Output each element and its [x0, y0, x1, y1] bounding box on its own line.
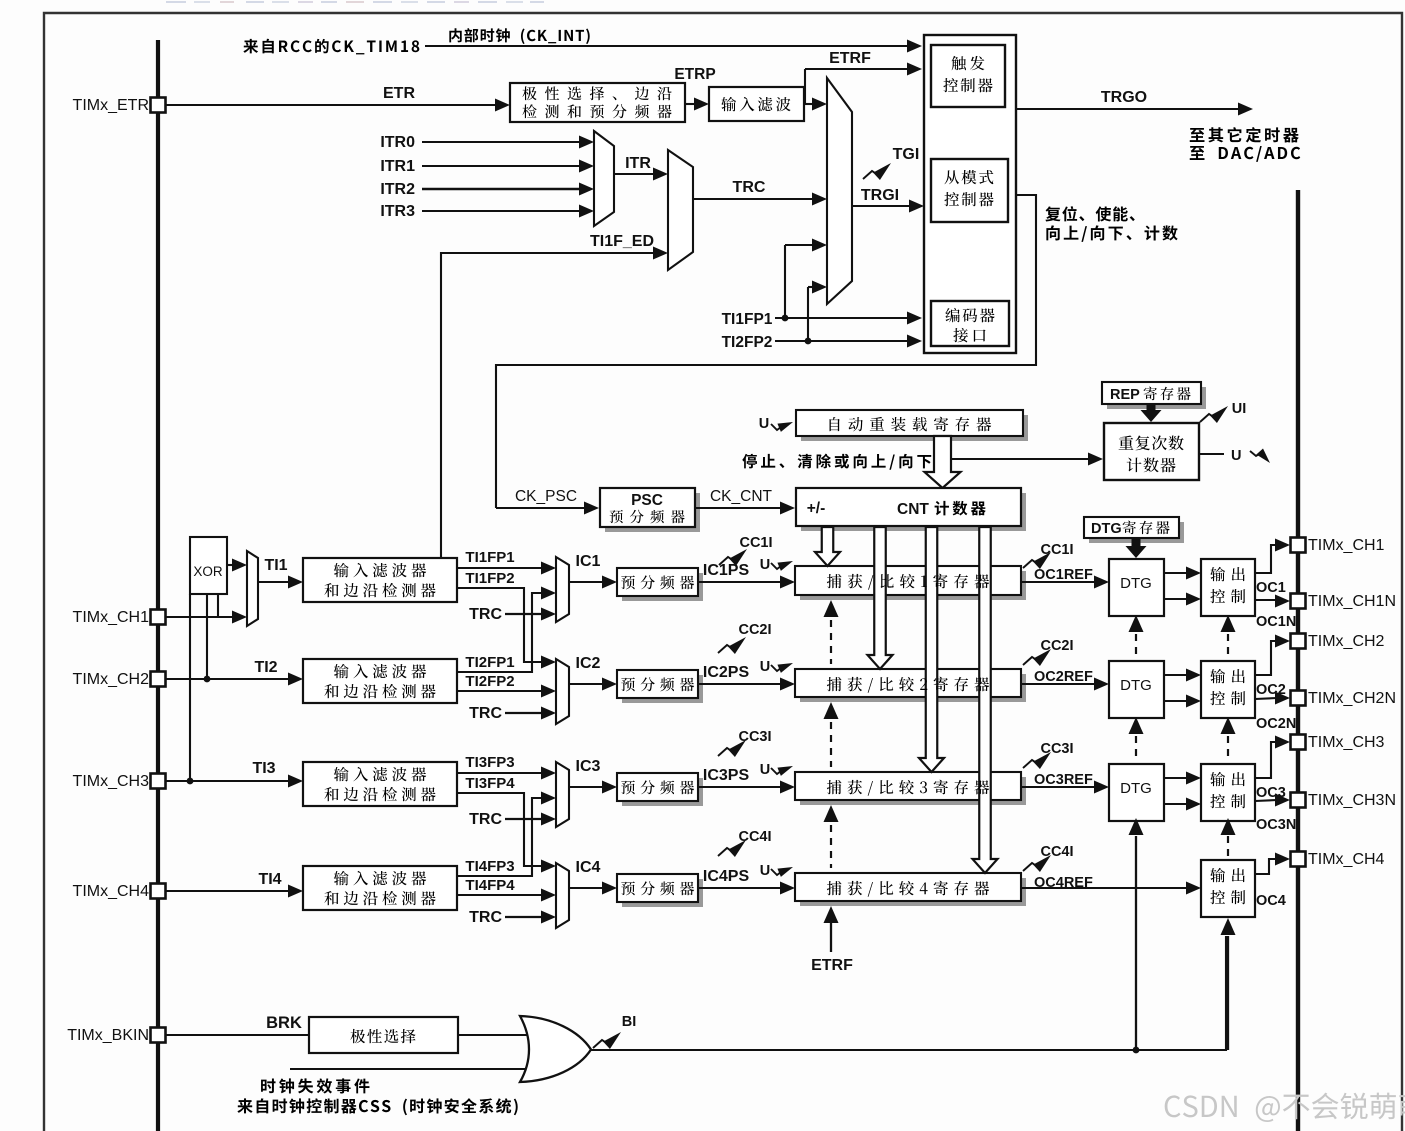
wire TI2FP1	[457, 593, 545, 672]
svg-text:BRK: BRK	[266, 1014, 302, 1032]
interrupt BI	[593, 1040, 608, 1048]
box repetition counter	[1104, 423, 1199, 480]
dashes output-control column	[1221, 615, 1236, 632]
box trigger controller	[931, 45, 1005, 107]
svg-text:ITR2: ITR2	[380, 181, 415, 198]
pad TIMx_CH1N	[1291, 594, 1306, 609]
pad TIMx_CH3N	[1291, 793, 1306, 808]
pad TIMx_CH1	[1291, 538, 1306, 553]
svg-text:ETRF: ETRF	[829, 50, 871, 67]
wire TRC row 1	[505, 613, 543, 615]
hollow arrow CNT to capture/compare 3	[919, 527, 944, 772]
svg-text:TIMx_ETR: TIMx_ETR	[73, 97, 149, 114]
svg-text:OC4: OC4	[1256, 893, 1286, 909]
mux TRC select	[668, 150, 693, 270]
wire ETR	[165, 104, 495, 106]
svg-text:CC2I: CC2I	[738, 622, 771, 638]
svg-text:TRC: TRC	[469, 705, 502, 722]
wire TI2FP2	[457, 690, 543, 692]
label reset enable updown count	[1045, 206, 1060, 221]
pad TIMx_CH3	[1291, 735, 1306, 750]
wire OC4	[1255, 859, 1277, 874]
box prescaler IC3	[622, 778, 703, 806]
right I/O bus	[1296, 190, 1300, 1131]
mux IC3 select	[556, 762, 569, 827]
box prescaler IC2	[622, 675, 703, 703]
svg-text:TIMx_BKIN: TIMx_BKIN	[67, 1027, 149, 1044]
wire TI1FP1	[457, 567, 543, 569]
dashes DTG column	[1129, 615, 1144, 632]
wire OC2REF	[1021, 683, 1095, 685]
wires DTG2 to output control	[1164, 674, 1187, 676]
arrow DTG register to DTG1	[1126, 538, 1147, 558]
box capture/compare register 1	[800, 571, 1026, 600]
box polarity selection	[309, 1017, 458, 1053]
svg-text:TIMx_CH4: TIMx_CH4	[73, 883, 150, 900]
hollow arrow ARR to CNT	[925, 436, 961, 488]
label stop clear or up/down	[742, 454, 757, 469]
cropped page title fragments	[166, 1, 186, 3]
svg-text:CC3I: CC3I	[1040, 741, 1073, 757]
svg-text:TI1FP1: TI1FP1	[722, 311, 773, 328]
svg-text:TI2FP2: TI2FP2	[722, 334, 773, 351]
svg-text:CC1I: CC1I	[739, 535, 772, 551]
hollow arrow CNT to capture/compare 2	[868, 527, 893, 669]
svg-text:CC4I: CC4I	[1040, 844, 1073, 860]
svg-text:TRGI: TRGI	[861, 187, 899, 204]
event U output of repetition counter	[1199, 453, 1224, 455]
box input filter & edge detector TI1	[303, 558, 457, 602]
wire TI2FP2 to encoder	[775, 340, 908, 342]
box prescaler IC1	[622, 573, 703, 601]
wire OC2N	[1255, 698, 1277, 699]
svg-text:TI4: TI4	[258, 871, 281, 888]
wire IC2	[569, 683, 604, 685]
svg-text:CNT: CNT	[897, 501, 929, 518]
wire TRC row 3	[505, 818, 543, 820]
interrupt UI	[1200, 414, 1215, 422]
wire IC1	[569, 581, 604, 583]
svg-text:IC4: IC4	[576, 859, 601, 876]
svg-text:CC3I: CC3I	[738, 729, 771, 745]
svg-text:U: U	[760, 659, 770, 675]
arrow update into capture/compare 3 bottom	[824, 805, 839, 822]
svg-text:TRC: TRC	[469, 811, 502, 828]
svg-text:TIMx_CH4: TIMx_CH4	[1308, 851, 1385, 868]
svg-text:TRC: TRC	[469, 909, 502, 926]
svg-text:OC3REF: OC3REF	[1034, 772, 1093, 788]
box REP register	[1107, 387, 1206, 409]
svg-text:TRC: TRC	[733, 179, 766, 196]
wire IC3	[569, 786, 604, 788]
wire OC4REF	[1021, 887, 1187, 889]
pad TIMx_CH2	[1291, 634, 1306, 649]
box input filter & edge detector TI3	[303, 762, 457, 806]
wires DTG3 to output control	[1164, 777, 1187, 779]
svg-text:OC1REF: OC1REF	[1034, 567, 1093, 583]
wire TI4FP4	[457, 894, 543, 896]
box capture/compare register 2	[800, 674, 1026, 702]
svg-text:TIMx_CH1: TIMx_CH1	[1308, 537, 1385, 554]
pad TIMx_CH2N	[1291, 691, 1306, 706]
box input filter	[709, 87, 804, 121]
wire TI1F_ED	[441, 253, 655, 558]
interrupt CC1I right	[1023, 560, 1038, 568]
svg-text:TI3: TI3	[252, 760, 275, 777]
label to DAC/ADC	[1190, 146, 1205, 160]
hollow arrow CNT to capture/compare 1	[815, 527, 840, 566]
arrow ETRF into capture/compare 4 bottom	[824, 906, 839, 923]
arrow update into capture/compare 1 bottom	[824, 600, 839, 617]
wire OC1N	[1255, 599, 1277, 601]
interrupt TGI	[863, 171, 878, 179]
CSDN watermark	[1165, 1095, 1181, 1117]
wire TI3FP3	[457, 772, 543, 774]
wire CK_CNT	[695, 507, 781, 509]
wire TI2	[165, 678, 289, 680]
hollow arrow CNT to capture/compare 4	[973, 527, 998, 873]
wire CK_PSC	[496, 507, 585, 509]
svg-text:IC1: IC1	[576, 553, 601, 570]
box DTG 3	[1109, 764, 1164, 821]
svg-text:UI: UI	[1232, 401, 1247, 417]
svg-text:ITR: ITR	[625, 155, 651, 172]
svg-text:TRGO: TRGO	[1101, 89, 1147, 106]
wire BRK input	[165, 1034, 309, 1036]
squiggle CC2I left	[718, 645, 733, 653]
wire TI1FP1 to TRGI mux	[784, 245, 786, 318]
svg-text:DTG: DTG	[1091, 521, 1122, 537]
svg-text:IC2: IC2	[576, 655, 601, 672]
svg-text:TI4FP4: TI4FP4	[465, 877, 515, 894]
box input filter & edge detector TI2	[303, 659, 457, 703]
mux TI1 select	[247, 551, 258, 626]
svg-text:U: U	[760, 557, 770, 573]
pad TIMx_CH1	[151, 610, 166, 625]
wire ETRF to trigger controller	[804, 103, 805, 105]
svg-text:PSC: PSC	[631, 492, 663, 509]
wire OC3	[1255, 742, 1277, 778]
svg-text:TIMx_CH2: TIMx_CH2	[1308, 633, 1385, 650]
svg-text:U: U	[759, 416, 769, 432]
box PSC prescaler	[605, 493, 700, 532]
wire TI3FP4	[457, 793, 545, 866]
mux IC4 select	[556, 863, 569, 928]
wire TRGI	[852, 205, 910, 207]
wire TI1FP2	[457, 588, 545, 662]
svg-text:CC1I: CC1I	[1040, 542, 1073, 558]
mux IC2 select	[556, 659, 569, 724]
wire TI2FP2 to TRGI mux	[807, 287, 809, 341]
svg-text:CK_CNT: CK_CNT	[710, 488, 773, 505]
svg-text:TIMx_CH1N: TIMx_CH1N	[1308, 593, 1396, 610]
interrupt CC4I right	[1023, 863, 1038, 871]
capture/compare register texts	[827, 574, 842, 588]
svg-text:OC3N: OC3N	[1256, 817, 1296, 833]
svg-text:TI1: TI1	[264, 557, 287, 574]
svg-text:ETRP: ETRP	[674, 66, 715, 83]
wire clock-failure to OR gate	[290, 1068, 529, 1070]
svg-text:CC2I: CC2I	[1040, 638, 1073, 654]
label to other timers	[1190, 128, 1205, 142]
svg-text:CK_PSC: CK_PSC	[515, 488, 577, 505]
wire polarity to OR gate	[458, 1034, 528, 1036]
mux ITR select	[594, 131, 614, 226]
wire IC1PS	[698, 581, 781, 583]
box DTG register	[1089, 522, 1184, 543]
svg-text:DTG: DTG	[1120, 677, 1152, 694]
wire internal clock CK_INT	[425, 45, 908, 47]
svg-text:TI2FP2: TI2FP2	[465, 673, 514, 690]
pad TIMx_CH4	[1291, 852, 1306, 867]
svg-text:TIMx_CH3N: TIMx_CH3N	[1308, 792, 1396, 809]
svg-text:TI3FP4: TI3FP4	[465, 775, 515, 792]
box XOR	[190, 537, 227, 594]
wire TIMx_CH1 input	[165, 616, 234, 618]
pad TIMx_CH3	[151, 774, 166, 789]
wire IC3PS	[698, 786, 781, 788]
wire TI1	[258, 581, 289, 583]
svg-text:TIMx_CH2N: TIMx_CH2N	[1308, 690, 1396, 707]
box capture/compare register 3	[800, 777, 1026, 805]
box DTG 1	[1109, 559, 1164, 616]
box capture/compare register 4	[800, 878, 1026, 906]
wire IC4	[569, 887, 604, 889]
interrupt CC3I right	[1023, 760, 1038, 768]
box auto-reload register	[801, 415, 1028, 441]
pad TIMx_ETR	[151, 98, 166, 113]
wire TI4	[165, 890, 289, 892]
arrow REP to repetition counter	[1141, 404, 1162, 422]
wire TI4FP3	[457, 798, 545, 876]
wire ITR	[614, 173, 655, 175]
box DTG 2	[1109, 661, 1164, 718]
interrupt CC2I right	[1023, 657, 1038, 665]
label from clock controller CSS	[237, 1098, 252, 1113]
pad TIMx_CH2	[151, 672, 166, 687]
wire ETRP	[685, 103, 697, 105]
svg-text:IC4PS: IC4PS	[703, 868, 750, 885]
svg-text:TIMx_CH3: TIMx_CH3	[1308, 734, 1385, 751]
wire TRC	[693, 198, 814, 200]
svg-text:ITR3: ITR3	[380, 203, 415, 220]
svg-text:REP: REP	[1110, 387, 1140, 403]
wire TRC row 2	[505, 712, 543, 714]
svg-text:OC2N: OC2N	[1256, 716, 1296, 732]
label internal clock (CK_INT)	[449, 28, 461, 42]
label clock failure event	[261, 1079, 275, 1094]
wire TRC row 4	[505, 916, 543, 918]
svg-text:TI2FP1: TI2FP1	[465, 654, 514, 671]
svg-text:DTG: DTG	[1120, 575, 1152, 592]
wire BI to output stage	[591, 936, 1226, 1050]
wire OC1REF	[1021, 581, 1095, 583]
wire filter to TRGI mux	[804, 103, 814, 105]
svg-text:TRC: TRC	[469, 606, 502, 623]
pad TIMx_BKIN	[151, 1028, 166, 1043]
box output control 2	[1201, 661, 1255, 718]
wire IC4PS	[698, 887, 781, 889]
svg-text:XOR: XOR	[193, 564, 223, 579]
wire IC2PS	[698, 683, 781, 685]
svg-text:OC1N: OC1N	[1256, 614, 1296, 630]
wire TI3	[165, 780, 289, 782]
svg-text:TI3FP3: TI3FP3	[465, 754, 514, 771]
svg-text:TI1FP2: TI1FP2	[465, 570, 514, 587]
label CK_TIM18 from RCC	[243, 39, 258, 54]
svg-text:IC3: IC3	[576, 758, 601, 775]
wire OC3N	[1255, 800, 1277, 801]
OR gate break	[520, 1016, 591, 1082]
svg-text:U: U	[760, 863, 770, 879]
svg-text:BI: BI	[622, 1014, 637, 1030]
svg-text:TGI: TGI	[893, 146, 920, 163]
box slave-mode container	[924, 35, 1016, 353]
box encoder interface	[931, 301, 1009, 346]
svg-text:U: U	[1231, 448, 1241, 464]
box output control 4	[1201, 860, 1255, 917]
svg-text:TI2: TI2	[254, 659, 277, 676]
svg-text:TI1FP1: TI1FP1	[465, 549, 514, 566]
svg-text:U: U	[760, 762, 770, 778]
svg-text:ITR0: ITR0	[380, 134, 415, 151]
arrow update into capture/compare 2 bottom	[824, 702, 839, 719]
svg-text:IC1PS: IC1PS	[703, 562, 750, 579]
box CNT counter	[801, 493, 1026, 531]
mux TRGI select	[827, 78, 852, 304]
box slave mode controller	[931, 159, 1008, 222]
wire TI1FP1 to encoder	[775, 317, 908, 319]
wire OC2	[1255, 641, 1277, 675]
wire OC1	[1255, 545, 1277, 573]
box output control 3	[1201, 764, 1255, 821]
box polarity/edge-detector/prescaler	[510, 83, 685, 122]
box input filter & edge detector TI4	[303, 866, 457, 910]
svg-text:IC3PS: IC3PS	[703, 767, 750, 784]
wire XOR output	[227, 564, 234, 566]
squiggle CC1I left	[719, 557, 734, 565]
pad TIMx_CH4	[151, 884, 166, 899]
wire update to repetition counter	[951, 458, 1089, 460]
wire OC3REF	[1021, 786, 1095, 788]
squiggle CC4I left	[718, 848, 733, 856]
wire slave controller to prescaler (reset/enable/count)	[496, 195, 1036, 508]
svg-text:OC1: OC1	[1256, 580, 1286, 596]
svg-text:TIMx_CH1: TIMx_CH1	[73, 609, 150, 626]
mux IC1 select	[556, 557, 569, 622]
wire TRGO	[1016, 108, 1239, 110]
svg-text:TIMx_CH2: TIMx_CH2	[73, 671, 150, 688]
svg-text:TI1F_ED: TI1F_ED	[590, 233, 654, 250]
wire XOR inputs from CH1/CH2/CH3	[217, 594, 219, 617]
svg-text:ITR1: ITR1	[380, 158, 415, 175]
box output control 1	[1201, 559, 1255, 616]
svg-text:TIMx_CH3: TIMx_CH3	[73, 773, 150, 790]
svg-text:ETRF: ETRF	[811, 957, 853, 974]
svg-text:DTG: DTG	[1120, 780, 1152, 797]
svg-text:OC2REF: OC2REF	[1034, 669, 1093, 685]
svg-text:IC2PS: IC2PS	[703, 664, 750, 681]
svg-text:CC4I: CC4I	[738, 829, 771, 845]
svg-text:TI4FP3: TI4FP3	[465, 858, 514, 875]
wires DTG1 to output control	[1164, 572, 1187, 574]
svg-text:+/-: +/-	[807, 500, 826, 517]
left I/O bus	[156, 40, 160, 1131]
svg-text:ETR: ETR	[383, 85, 415, 102]
box prescaler IC4	[622, 879, 703, 907]
squiggle CC3I left	[718, 748, 733, 756]
